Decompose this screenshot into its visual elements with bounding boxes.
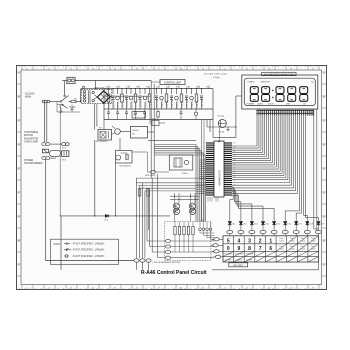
svg-text:( DOOR SENSING SWITCH: ( DOOR SENSING SWITCH: [153, 262, 181, 264]
svg-text:Cook: Cook: [290, 249, 295, 251]
svg-text:C19 47u: C19 47u: [197, 100, 199, 108]
svg-text:CON: CON: [200, 220, 205, 222]
svg-text:0: 0: [227, 246, 230, 252]
svg-text:2: 2: [259, 238, 262, 244]
svg-text:C11 47u: C11 47u: [157, 100, 159, 107]
svg-text:7: 7: [259, 246, 262, 252]
svg-text:8: 8: [248, 246, 251, 252]
svg-text:Cook: Cook: [279, 249, 284, 251]
svg-text:A: A: [323, 215, 325, 219]
svg-text:Cook: Cook: [279, 241, 284, 243]
svg-text:C: C: [18, 119, 20, 123]
svg-text:C14 47u: C14 47u: [172, 100, 174, 108]
svg-text:D: D: [323, 143, 325, 147]
svg-text:C7 47u: C7 47u: [136, 101, 138, 107]
svg-text:B: B: [18, 239, 20, 243]
svg-text:Cook: Cook: [300, 241, 305, 243]
svg-text:B: B: [18, 95, 20, 99]
svg-text:C1 47u: C1 47u: [109, 101, 111, 107]
svg-text:C6 47u: C6 47u: [131, 101, 133, 107]
svg-text:BK (2W40S): BK (2W40S): [120, 166, 131, 168]
svg-text:IX0644: IX0644: [132, 130, 139, 132]
svg-text:TA2B 400B: TA2B 400B: [94, 86, 105, 89]
svg-text:POWER: POWER: [247, 104, 255, 106]
svg-text:Cook: Cook: [311, 249, 316, 251]
svg-text:IX05xx: IX05xx: [182, 173, 188, 175]
svg-text:FLUORESCENT DISPLAY TUBE: FLUORESCENT DISPLAY TUBE: [264, 73, 294, 76]
svg-text:LEVEL: LEVEL: [236, 259, 243, 261]
svg-text:POWER: POWER: [235, 254, 243, 256]
svg-text:GRIL LAMP: GRIL LAMP: [145, 174, 156, 177]
svg-text:C3 47u: C3 47u: [118, 101, 120, 107]
svg-text:A: A: [323, 71, 325, 75]
svg-text:C5 47u: C5 47u: [127, 101, 129, 107]
svg-text:R-A46 Control Panel Circuit: R-A46 Control Panel Circuit: [141, 270, 207, 276]
svg-text:1: 1: [269, 238, 272, 244]
svg-text:C: C: [323, 119, 325, 123]
svg-text:C13 47u: C13 47u: [167, 100, 169, 108]
svg-text:E: E: [323, 167, 325, 171]
svg-text:4.3(typ): 4.3(typ): [213, 76, 220, 79]
svg-text:Cook: Cook: [300, 249, 305, 251]
svg-text:Cook: Cook: [290, 241, 295, 243]
svg-text:A: A: [18, 215, 20, 219]
svg-text:D: D: [18, 143, 20, 147]
svg-text:BK (2W40S): BK (2W40S): [96, 141, 107, 143]
svg-text:(H): (H): [74, 99, 77, 101]
svg-text:9: 9: [238, 246, 241, 252]
svg-text:OVEN LAMP: OVEN LAMP: [24, 141, 38, 144]
svg-text:Cook: Cook: [311, 241, 316, 243]
svg-text:F1 10A: F1 10A: [69, 106, 76, 109]
svg-text:C16 47u: C16 47u: [182, 100, 184, 108]
svg-text:C4 47u: C4 47u: [122, 101, 124, 107]
svg-text:C8 47u: C8 47u: [140, 101, 142, 107]
svg-text:4: 4: [238, 238, 241, 244]
svg-text:COOK: COOK: [268, 104, 275, 106]
svg-text:60Hz: 60Hz: [25, 95, 32, 99]
svg-text:C: C: [323, 263, 325, 267]
svg-text:: IF NOT SPECIFIED : 1/4W±5%: : IF NOT SPECIFIED : 1/4W±5%: [72, 243, 105, 245]
svg-text:TRANSFORMER: TRANSFORMER: [24, 162, 43, 165]
svg-text:C12 47u: C12 47u: [162, 100, 164, 108]
svg-text:C18 47u: C18 47u: [192, 100, 194, 108]
svg-text:C: C: [18, 263, 20, 267]
svg-text:B: B: [323, 95, 325, 99]
svg-text:LEVEL: LEVEL: [225, 259, 232, 261]
svg-text:: IF NOT SPECIFIED : 1/4W±5%: : IF NOT SPECIFIED : 1/4W±5%: [72, 256, 105, 258]
svg-text:5: 5: [227, 238, 230, 244]
svg-text:AUTO: AUTO: [258, 103, 264, 106]
svg-text:C10 47u: C10 47u: [150, 100, 152, 108]
svg-text:C20 47u: C20 47u: [202, 100, 204, 108]
svg-text:C2 47u: C2 47u: [113, 101, 115, 107]
svg-text:CONTROL UNIT: CONTROL UNIT: [164, 82, 182, 84]
svg-text:COMPU: COMPU: [247, 81, 255, 83]
svg-text:POWER: POWER: [246, 254, 254, 256]
svg-text:B: B: [323, 239, 325, 243]
svg-text:3: 3: [248, 238, 251, 244]
svg-text:C9 47u: C9 47u: [145, 101, 147, 107]
svg-text:KEY UNIT: KEY UNIT: [233, 265, 243, 267]
svg-text:R5 (1g): R5 (1g): [218, 116, 225, 118]
svg-text:C17 47u: C17 47u: [187, 100, 189, 108]
svg-text:NOTE: NOTE: [54, 244, 61, 246]
svg-text:DEFROST: DEFROST: [261, 81, 271, 83]
svg-text:A: A: [18, 71, 20, 75]
svg-text:kg: kg: [311, 81, 313, 83]
svg-text:VD (-24V) at VFC (-24st): VD (-24V) at VFC (-24st): [204, 73, 227, 76]
svg-text:HD44801A78: HD44801A78: [217, 170, 221, 186]
svg-text:6: 6: [269, 246, 272, 252]
svg-text:E: E: [18, 167, 20, 171]
svg-text:LEVEL: LEVEL: [246, 259, 253, 261]
svg-text:C15 47u: C15 47u: [177, 100, 179, 108]
svg-text:: IF NOT SPECIFIED : 1/4W±5%: : IF NOT SPECIFIED : 1/4W±5%: [72, 250, 105, 252]
svg-text:LBS: LBS: [286, 104, 290, 106]
svg-text:POWER: POWER: [225, 254, 233, 256]
